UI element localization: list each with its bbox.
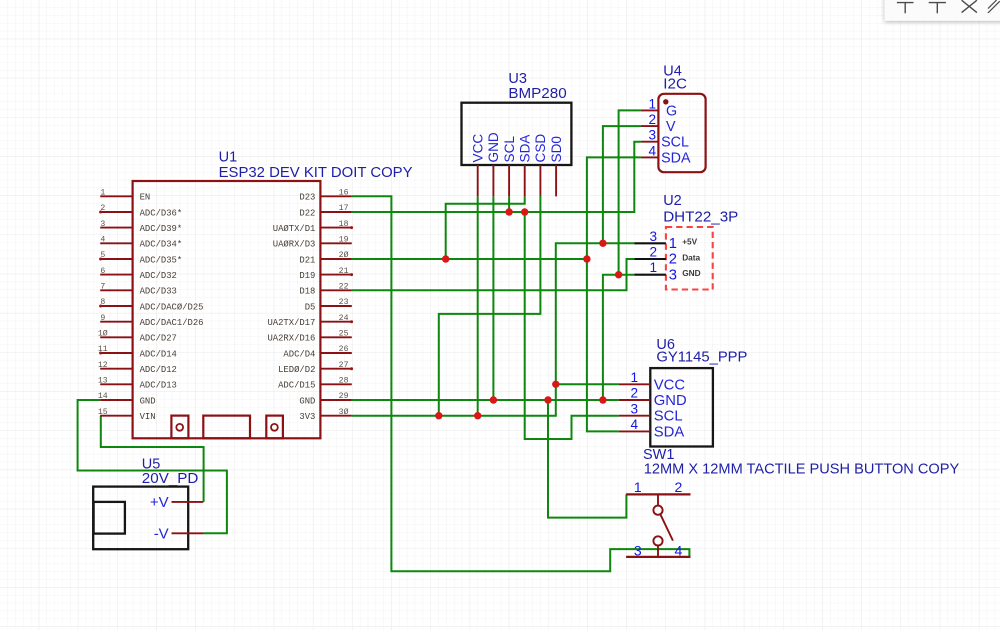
svg-text:18: 18 [339,220,349,229]
svg-text:BMP280: BMP280 [508,85,566,102]
svg-text:ADC/D12: ADC/D12 [140,365,177,375]
svg-text:D18: D18 [299,287,315,297]
U1 pin 16 D23 [299,189,351,203]
SW1 top bar pins 1-2 [626,479,690,495]
svg-text:3: 3 [634,542,642,558]
svg-text:ESP32 DEV KIT DOIT COPY: ESP32 DEV KIT DOIT COPY [219,165,413,181]
svg-text:LEDØ/D2: LEDØ/D2 [278,365,315,375]
U1 pin 5 ADC/D35* [99,251,182,265]
svg-text:EN: EN [140,193,151,203]
SW1 bottom bar pins 3-4 [626,542,690,558]
wire branch 3V3 to U6 VCC [556,383,619,385]
svg-text:GND: GND [654,393,687,409]
svg-text:1: 1 [100,189,105,198]
svg-text:GND: GND [140,396,156,406]
junction on SCL row at U3 SCL [505,208,512,215]
U1 pin 1 EN [100,189,150,203]
U1 pin 7 ADC/D33 [100,283,177,297]
svg-text:7: 7 [100,283,105,292]
svg-text:29: 29 [339,392,349,401]
junction on GND row at U3 GND branch [490,396,497,403]
IC U6 GY1145_PPP body [650,368,713,446]
junction on SDA row at U3 SDA branch [442,255,449,262]
svg-text:D21: D21 [299,255,315,265]
U4 pin 3 SCL [641,128,689,151]
U1 pin 4 ADC/D34* [100,236,182,250]
U3 pin VCC [471,134,486,197]
U1 pin 19 UA0RX/D3 [273,236,352,250]
svg-text:20V_PD: 20V_PD [142,470,199,487]
U4 pin1 marker dot [663,99,668,104]
junction on 3V3 riser at U6 VCC row [552,381,559,388]
svg-text:U2: U2 [663,193,682,209]
U2 pin 3 +5V [634,229,697,252]
U1 pin 22 D18 [299,283,351,297]
U1 pin 28 ADC/D15 [278,377,352,391]
svg-text:1: 1 [648,96,656,111]
U1 pin 27 LED0/D2 [278,361,353,375]
U1 pin 15 VIN [98,408,156,422]
svg-text:-V: -V [154,525,169,542]
svg-text:1Ø: 1Ø [98,329,108,339]
junction on 3V3 row at U3 VCC branch [474,412,481,419]
wire branch SCL to U6 SCL [525,212,619,439]
IC U3 BMP280 body [462,103,572,165]
svg-text:D19: D19 [299,271,315,281]
svg-text:SDA: SDA [518,134,533,163]
svg-text:I2C: I2C [663,75,687,92]
junction on U2 GND row at U4 G branch [615,271,622,278]
U1 pin 26 ADC/D4 [283,345,351,359]
U1 pin 12 ADC/D12 [98,361,177,375]
svg-text:VIN: VIN [140,412,156,422]
svg-text:3V3: 3V3 [299,412,315,422]
SW1 actuator stem and contact circles [653,494,673,557]
svg-text:3: 3 [669,267,677,283]
wire branch SCL to U3 SCL [508,197,510,213]
svg-text:17: 17 [339,204,349,213]
U5 inner connector rect [94,502,125,534]
U1 pin 13 ADC/D13 [98,377,177,391]
svg-text:22: 22 [339,283,349,292]
wire branch 3V3 to U4 V [603,126,641,243]
U4 pin 1 G [641,96,677,119]
svg-text:+5V: +5V [682,237,697,247]
U1 pin 11 ADC/D14 [98,345,177,359]
svg-text:D22: D22 [299,208,315,218]
U6 pin 1 VCC [619,370,685,393]
svg-text:28: 28 [339,377,349,386]
svg-text:3: 3 [630,401,638,416]
U1 pin 29 GND [299,392,351,406]
svg-text:SD0: SD0 [549,136,564,163]
U6 pin 3 SCL [619,401,683,424]
svg-text:26: 26 [339,345,349,354]
U1 pin 23 D5 [305,298,352,312]
svg-text:16: 16 [339,189,349,198]
wire branch 3V3 to U3 VCC [477,197,479,416]
svg-text:13: 13 [98,377,108,386]
svg-text:SDA: SDA [661,150,691,166]
svg-text:U1: U1 [219,150,238,166]
U1 pin 21 D19 [299,267,353,281]
svg-text:GND: GND [682,268,700,278]
U1 pin 6 ADC/D32 [100,267,177,281]
wire branch GND to U4 G [619,110,641,274]
U1 pin 14 GND [98,392,156,406]
svg-text:D23: D23 [299,193,315,203]
IC U4 I2C body [658,94,705,172]
connector U2 DHT22_3P dashed body [666,227,713,290]
svg-text:GND: GND [486,132,501,162]
wire net VIN: U1 pin15 to U5 +V [101,416,204,502]
svg-text:3: 3 [648,128,656,143]
svg-text:UAØRX/D3: UAØRX/D3 [273,240,316,250]
svg-text:24: 24 [339,314,349,323]
floating toolbar panel top right [885,0,1000,21]
wire net D23: U1 pin16 to SW1 pin4 [352,196,690,571]
wire branch SDA to U3 SDA [446,196,525,259]
junction on SCL row at U6 SCL branch [521,208,528,215]
wire net D18 Data: U1 pin22 to U2 Data [352,259,635,290]
wire branch GND to U2 GND [603,275,634,400]
svg-text:12MM X 12MM TACTILE PUSH BUTTO: 12MM X 12MM TACTILE PUSH BUTTON COPY [644,462,960,478]
svg-text:11: 11 [98,345,108,354]
U5 pin +V [150,494,203,511]
U1 pin 20 D21 [299,250,351,265]
svg-text:3Ø: 3Ø [339,407,349,417]
U3 pin SCL [502,136,517,197]
svg-text:1: 1 [669,236,677,252]
svg-text:VCC: VCC [471,134,486,163]
U1 pin 18 UA0TX/D1 [273,220,353,234]
svg-text:3: 3 [649,229,657,244]
svg-text:1: 1 [634,479,642,495]
svg-text:27: 27 [339,361,349,370]
junction on +5V row at U4 V branch [599,240,606,247]
svg-text:15: 15 [98,408,108,417]
IC U1 ESP32 DEV KIT DOIT COPY body [133,181,321,438]
U4 pin 4 SDA [641,143,691,166]
svg-text:VCC: VCC [654,377,686,393]
svg-text:12: 12 [98,361,108,370]
U3 pin SD0 [549,136,564,197]
junction on 3V3 row at CSD branch [435,412,442,419]
svg-text:ADC/D36*: ADC/D36* [140,208,183,218]
svg-text:25: 25 [339,330,349,339]
svg-text:2: 2 [675,479,683,495]
U1 pin 25 UA2RX/D16 [267,330,351,344]
svg-text:GY1145_PPP: GY1145_PPP [656,349,747,365]
wire net 3V3: U1 pin30 row to U2 +5V [352,243,635,415]
svg-text:4: 4 [630,417,638,432]
U3 pin GND [486,132,501,196]
svg-text:UA2TX/D17: UA2TX/D17 [267,318,315,328]
junction on GND row at U2 GND branch [599,396,606,403]
svg-text:ADC/D39*: ADC/D39* [140,224,183,234]
svg-text:4: 4 [675,542,683,558]
svg-text:UA2RX/D16: UA2RX/D16 [267,334,315,344]
junction on SDA row at U4/U6 SDA branch [583,255,590,262]
toolbar icon pen [988,0,1000,13]
svg-text:GND: GND [299,396,315,406]
svg-text:9: 9 [100,314,105,323]
svg-text:14: 14 [98,392,108,401]
U2 pin 1 GND [634,260,700,283]
svg-text:V: V [666,119,676,135]
svg-text:3: 3 [100,220,105,229]
svg-text:5: 5 [100,251,105,260]
svg-text:4: 4 [100,236,105,245]
svg-text:SCL: SCL [502,136,517,163]
U1 antenna block [203,416,250,439]
U1 pin 3 ADC/D39* [100,220,182,234]
svg-text:2Ø: 2Ø [339,250,349,260]
U6 pin 4 SDA [619,417,684,440]
U1 mounting hole left [171,416,188,439]
svg-text:2: 2 [649,245,657,260]
toolbar icon text T 2 [929,3,946,14]
svg-text:D5: D5 [305,302,316,312]
U3 pin SDA [518,134,533,197]
wire branch 3V3 to U3 CSD [439,196,541,416]
svg-text:19: 19 [339,236,349,245]
svg-text:8: 8 [100,298,105,307]
junction on GND row at SW1 branch [544,396,551,403]
U1 pin 2 ADC/D36* [99,204,182,218]
wire net SDA/D21: U1 pin20 row [352,258,587,260]
svg-text:Data: Data [682,252,700,262]
svg-text:G: G [666,103,677,119]
svg-text:1: 1 [649,260,657,275]
wire net SCL/D22: U1 pin17 row [352,142,641,212]
svg-text:ADC/D33: ADC/D33 [140,287,177,297]
toolbar icon text T 1 [897,3,914,14]
svg-text:ADC/D35*: ADC/D35* [140,255,183,265]
svg-text:ADC/D32: ADC/D32 [140,271,177,281]
U1 pin 10 ADC/D27 [98,329,177,344]
svg-text:ADC/DACØ/D25: ADC/DACØ/D25 [140,302,204,312]
svg-text:ADC/D4: ADC/D4 [283,349,315,359]
svg-text:4: 4 [648,143,656,158]
svg-text:SCL: SCL [654,409,683,425]
svg-text:6: 6 [100,267,105,276]
svg-text:UAØTX/D1: UAØTX/D1 [273,224,316,234]
svg-text:23: 23 [339,298,349,307]
U1 pin 24 UA2TX/D17 [267,314,353,328]
toolbar icon close X [962,0,977,12]
svg-text:2: 2 [630,386,638,401]
wire net GND left: U1 pin14 to U5 -V [78,400,227,533]
svg-text:1: 1 [630,370,638,385]
U1 pin 8 ADC/DAC0/D25 [99,298,203,312]
wire net GND: U1 pin29 row to U6 GND [352,399,619,401]
svg-text:ADC/DAC1/D26: ADC/DAC1/D26 [140,318,204,328]
U5 pin -V [154,525,204,542]
svg-text:ADC/D15: ADC/D15 [278,381,315,391]
svg-text:CSD: CSD [533,134,548,163]
wire branch GND to U3 GND [492,197,494,401]
svg-text:2: 2 [669,252,677,268]
U1 pin 9 ADC/DAC1/D26 [100,314,203,328]
svg-text:DHT22_3P: DHT22_3P [663,208,738,225]
U6 pin 2 GND [619,386,687,409]
U1 pin 30 3V3 [299,407,351,422]
svg-text:2: 2 [100,204,105,213]
svg-text:+V: +V [150,494,169,511]
svg-text:2: 2 [648,112,656,127]
U4 pin 2 V [641,112,676,135]
svg-text:ADC/D14: ADC/D14 [140,349,177,359]
U1 pin 17 D22 [299,204,351,218]
wire branch GND to SW1 pin1 [548,400,626,518]
svg-text:ADC/D27: ADC/D27 [140,334,177,344]
svg-text:ADC/D34*: ADC/D34* [140,240,183,250]
wire branch SDA to U4 SDA and U6 SDA [587,157,641,431]
U3 pin CSD [533,134,548,196]
svg-text:SW1: SW1 [643,447,674,463]
svg-text:SCL: SCL [661,135,689,151]
power module U5 20V_PD body [93,487,188,550]
U2 pin 2 Data [634,245,700,268]
U1 mounting hole right [266,416,283,439]
svg-text:SDA: SDA [654,424,685,440]
svg-text:ADC/D13: ADC/D13 [140,381,177,391]
svg-text:21: 21 [339,267,349,276]
